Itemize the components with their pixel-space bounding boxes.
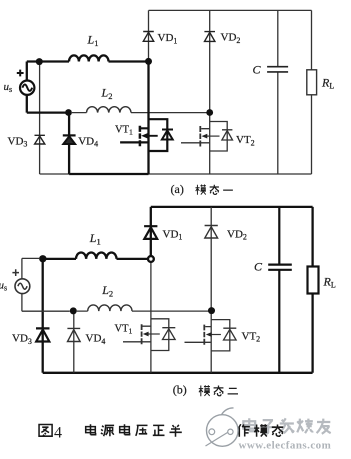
svg-text:(b): (b) (173, 383, 187, 397)
svg-text:C: C (253, 62, 262, 76)
svg-text:4: 4 (54, 425, 62, 442)
svg-text:C: C (254, 259, 263, 273)
svg-text:www.elecfans.com: www.elecfans.com (239, 440, 332, 452)
svg-text:(a): (a) (171, 182, 184, 196)
